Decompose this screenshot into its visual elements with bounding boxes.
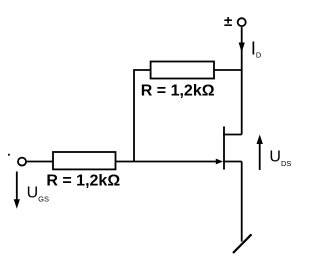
input terminal (left) [18, 158, 26, 166]
ground (chassis slash) [233, 234, 252, 253]
wire: resistor R1 to gate [116, 161, 218, 163]
svg-text:±: ± [224, 13, 232, 30]
voltage arrow U_GS [16, 172, 18, 202]
wire: loop left vertical [134, 70, 151, 162]
drain lead [223, 134, 242, 136]
wire: top resistor right [214, 69, 242, 71]
supply terminal (top right) [238, 18, 246, 26]
resistor R1 (left) [53, 152, 116, 169]
wire: input to resistor R1 [26, 161, 53, 163]
svg-text:R = 1,2kΩ: R = 1,2kΩ [141, 82, 215, 99]
current arrow I_D [239, 43, 245, 53]
wire: supply drop to drain [241, 27, 243, 134]
stray dot [8, 154, 10, 156]
transistor Q1 (n-JFET) [223, 126, 242, 169]
voltage arrow U_DS [259, 144, 261, 171]
resistor R2 (top) [151, 62, 214, 79]
source lead [223, 161, 242, 163]
channel bar [223, 126, 225, 169]
wire: source down to ground [241, 162, 243, 242]
gate arrow (into channel) [216, 159, 223, 165]
svg-text:R = 1,2kΩ: R = 1,2kΩ [46, 172, 120, 189]
